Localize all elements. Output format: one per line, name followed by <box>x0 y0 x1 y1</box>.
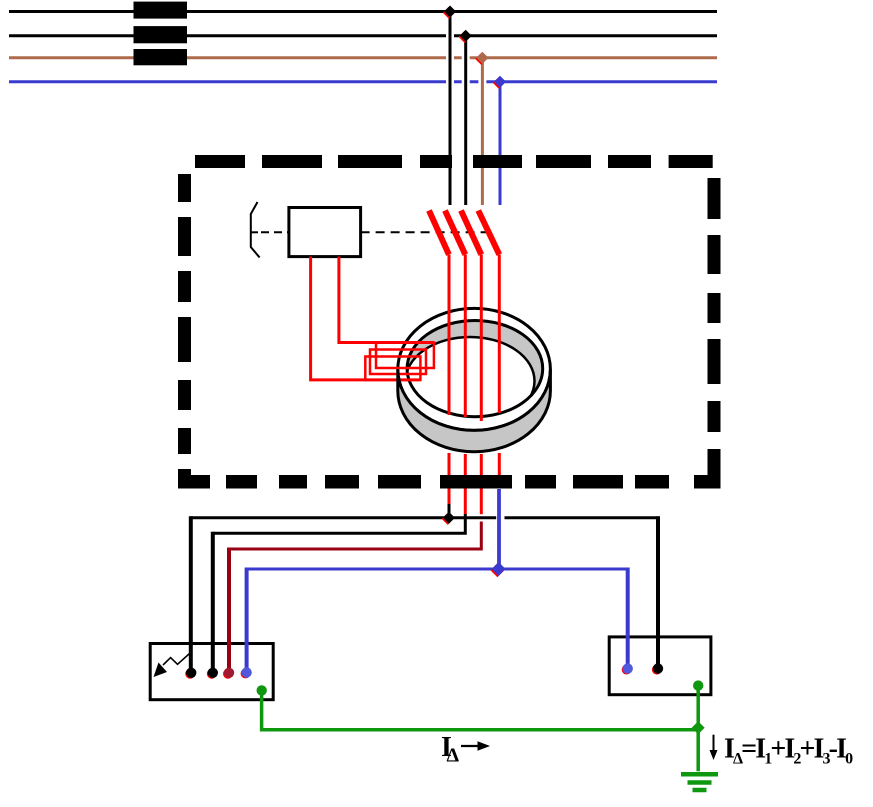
wire maroon phase3 drop <box>227 548 231 673</box>
terminal dot phase1 (right box) <box>652 663 663 674</box>
mechanical link dashed left <box>261 231 289 233</box>
node green earth junction <box>692 721 705 734</box>
wire drop L3 vertical brown <box>481 58 484 205</box>
wire red phase 2 below toroid <box>464 454 467 514</box>
wire blue neutral right drop <box>626 568 630 669</box>
wire green earth right vertical <box>696 686 700 772</box>
arrow right <box>461 745 479 747</box>
coil W1 turn 1 <box>376 343 434 369</box>
mechanical link dashed right <box>361 231 487 233</box>
busbar mark phase 1 <box>134 2 188 19</box>
ground symbol bar 3 <box>693 788 707 793</box>
contact S3 (red) <box>461 211 481 255</box>
wire drop L1 vertical black <box>449 12 452 206</box>
wire halo drop L1 <box>446 18 454 205</box>
enclosure border left dashes <box>178 174 191 454</box>
trip actuator arrow <box>163 653 190 665</box>
wire red phase 3 through toroid <box>480 255 483 421</box>
node L3 junction <box>475 52 488 65</box>
enclosure corner bottom-right <box>694 449 721 489</box>
contact S4 (red) <box>478 211 499 255</box>
wire red phase 1 below toroid <box>448 453 451 505</box>
wire black phase1 right drop <box>656 516 660 668</box>
wire red phase 2 through toroid <box>464 255 467 417</box>
wire blue vertical below enclosure <box>497 489 501 569</box>
wire black phase2 elbow <box>213 514 465 533</box>
terminal dot phase3 maroon <box>223 668 234 679</box>
wire black phase1 below box <box>448 504 451 518</box>
wire drop N vertical blue <box>499 82 502 205</box>
wire drop L2 vertical black <box>464 36 467 205</box>
svg-text:Δ: Δ <box>447 744 460 766</box>
wire black phase1 horizontal <box>191 516 659 519</box>
toroid CT hole rim <box>407 321 543 417</box>
coil W1 turn 3 <box>365 357 420 380</box>
wire maroon phase3 elbow <box>229 522 481 550</box>
mechanical-link bracket <box>251 202 260 258</box>
toroid CT hole <box>407 321 543 417</box>
enclosure border top dashes <box>195 155 713 168</box>
toroid CT front wall <box>398 369 551 451</box>
wire green earth left <box>262 690 699 729</box>
RCD switch assembly box (left) <box>150 644 273 700</box>
wire blue neutral horizontal <box>247 568 628 571</box>
wire black phase1 left drop <box>189 516 193 673</box>
wire red neutral through toroid <box>498 255 501 413</box>
node L1 junction <box>443 6 456 19</box>
ground symbol bar 2 <box>688 780 712 785</box>
wire halo drop L3 <box>478 64 486 205</box>
terminal dot earth green (right box) <box>693 680 703 690</box>
busbar mark phase 2 <box>134 26 188 43</box>
wire bus L1 (phase 1, black) <box>9 10 717 13</box>
wire red neutral below toroid <box>498 453 501 478</box>
terminal dot neutral (right box) <box>622 663 633 674</box>
wire blue neutral left drop <box>245 568 249 673</box>
node phase1 bottom junction <box>442 512 455 525</box>
wire bus N (neutral, blue) <box>9 80 717 83</box>
wire bus L3 (phase 3, brown) <box>9 56 717 59</box>
load box (right) <box>609 637 711 695</box>
wire halo drop L2 <box>462 42 470 205</box>
enclosure corner bottom-left <box>178 469 210 489</box>
wire black phase2 drop <box>211 532 215 673</box>
wire gap cover at blue crossing <box>496 516 504 521</box>
svg-text:IΔ=I1+I2+I3-I0: IΔ=I1+I2+I3-I0 <box>724 734 853 768</box>
current direction arrow (down) <box>713 735 715 752</box>
ground symbol bar 1 <box>681 772 718 777</box>
node L2 junction <box>459 30 472 43</box>
node N junction <box>493 76 506 89</box>
wire red coil feed right <box>339 257 434 343</box>
terminal dot earth green (left box) <box>257 685 267 695</box>
toroid CT inner wall <box>406 337 535 425</box>
terminal dot phase1 <box>185 668 196 679</box>
contact S1 (red) <box>429 211 449 255</box>
terminal dot neutral blue <box>241 667 252 678</box>
enclosure border right dashes <box>708 178 721 432</box>
wire bus L2 (phase 2, black) <box>9 34 717 37</box>
op RCD trip coil box U1 <box>289 208 361 257</box>
wire red phase 1 through toroid <box>448 255 451 415</box>
coil W1 turn 2 <box>370 350 426 375</box>
enclosure border bottom dashes <box>226 475 669 489</box>
busbar mark phase 3 <box>134 49 188 65</box>
terminal dot phase2 <box>207 668 218 679</box>
toroid CT outer ellipse <box>398 308 551 430</box>
contact S2 (red) <box>445 211 465 255</box>
wire red coil feed left <box>311 257 421 380</box>
node neutral junction <box>490 562 505 577</box>
wire red phase 3 below toroid <box>480 454 483 514</box>
